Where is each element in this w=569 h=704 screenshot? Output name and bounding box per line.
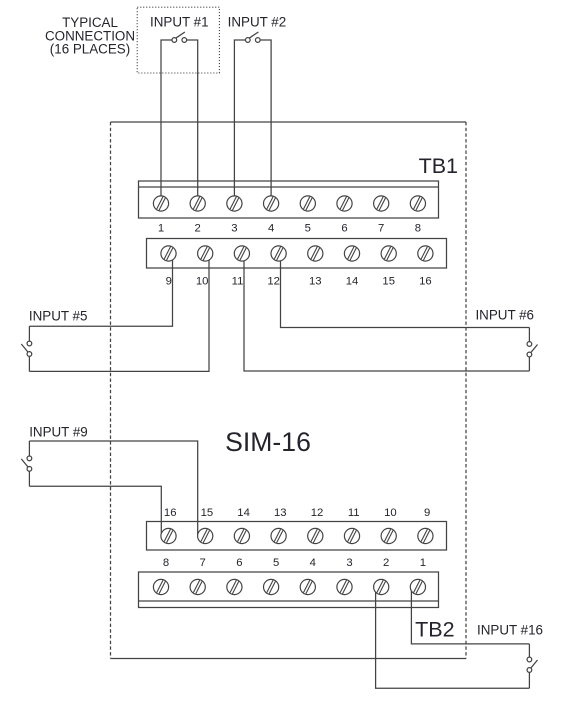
- svg-text:14: 14: [237, 507, 250, 519]
- svg-text:INPUT #16: INPUT #16: [477, 623, 543, 638]
- svg-text:TB1: TB1: [419, 154, 458, 178]
- svg-text:INPUT #2: INPUT #2: [228, 15, 287, 30]
- svg-text:10: 10: [196, 276, 209, 288]
- svg-text:TB2: TB2: [415, 617, 454, 641]
- svg-text:11: 11: [348, 507, 360, 519]
- svg-text:1: 1: [420, 557, 426, 569]
- svg-text:16: 16: [419, 276, 432, 288]
- svg-text:4: 4: [268, 223, 274, 235]
- svg-text:7: 7: [200, 557, 206, 569]
- svg-text:INPUT #9: INPUT #9: [29, 424, 88, 439]
- svg-text:4: 4: [310, 557, 316, 569]
- svg-text:8: 8: [163, 557, 169, 569]
- svg-text:3: 3: [231, 223, 237, 235]
- svg-text:12: 12: [267, 276, 280, 288]
- svg-text:2: 2: [383, 557, 389, 569]
- svg-text:7: 7: [378, 223, 384, 235]
- svg-text:15: 15: [201, 507, 214, 519]
- svg-text:5: 5: [273, 557, 279, 569]
- svg-text:11: 11: [232, 276, 244, 288]
- svg-text:9: 9: [424, 507, 430, 519]
- svg-text:8: 8: [415, 223, 421, 235]
- svg-text:13: 13: [309, 276, 322, 288]
- svg-text:12: 12: [311, 507, 324, 519]
- svg-text:13: 13: [274, 507, 287, 519]
- svg-text:(16 PLACES): (16 PLACES): [50, 42, 130, 57]
- svg-text:INPUT #1: INPUT #1: [150, 15, 209, 30]
- svg-text:10: 10: [384, 507, 397, 519]
- svg-text:15: 15: [382, 276, 395, 288]
- svg-text:INPUT #5: INPUT #5: [29, 308, 88, 323]
- svg-text:9: 9: [166, 276, 172, 288]
- svg-text:INPUT #6: INPUT #6: [475, 308, 534, 323]
- svg-text:6: 6: [341, 223, 347, 235]
- svg-text:5: 5: [305, 223, 311, 235]
- svg-text:3: 3: [346, 557, 352, 569]
- svg-text:SIM-16: SIM-16: [225, 427, 311, 457]
- svg-text:2: 2: [195, 223, 201, 235]
- svg-text:6: 6: [236, 557, 242, 569]
- svg-text:16: 16: [164, 507, 177, 519]
- svg-text:1: 1: [158, 223, 164, 235]
- svg-text:14: 14: [346, 276, 359, 288]
